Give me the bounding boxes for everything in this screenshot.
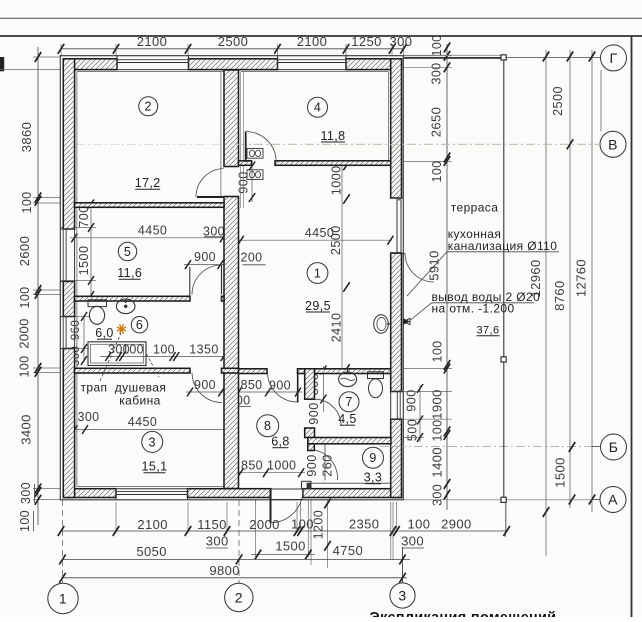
svg-text:6: 6	[136, 318, 143, 332]
svg-text:1500: 1500	[77, 246, 91, 276]
svg-text:2650: 2650	[429, 107, 444, 138]
svg-text:100: 100	[431, 420, 445, 442]
svg-text:850: 850	[240, 378, 262, 392]
svg-text:8760: 8760	[552, 280, 567, 311]
svg-text:100: 100	[430, 34, 444, 56]
svg-text:900: 900	[307, 402, 321, 424]
svg-text:300: 300	[206, 534, 229, 549]
svg-text:А: А	[608, 492, 618, 508]
svg-text:1000: 1000	[267, 459, 296, 473]
svg-text:1250: 1250	[351, 34, 382, 49]
svg-text:300: 300	[203, 225, 225, 239]
svg-text:1000: 1000	[330, 165, 344, 195]
svg-text:3: 3	[149, 435, 156, 449]
svg-text:300: 300	[401, 534, 424, 549]
svg-text:300: 300	[19, 482, 33, 504]
svg-text:3860: 3860	[19, 122, 34, 153]
svg-text:2900: 2900	[441, 517, 472, 532]
svg-text:1400: 1400	[430, 447, 445, 478]
svg-text:100: 100	[18, 355, 32, 377]
svg-text:4450: 4450	[138, 224, 167, 238]
svg-text:4450: 4450	[305, 226, 334, 240]
svg-text:900: 900	[269, 379, 291, 393]
svg-text:1150: 1150	[197, 517, 227, 532]
svg-text:В: В	[608, 136, 618, 152]
svg-text:5050: 5050	[136, 544, 167, 559]
svg-text:Б: Б	[609, 439, 619, 455]
svg-text:100: 100	[291, 517, 314, 532]
svg-text:4450: 4450	[128, 415, 157, 429]
svg-text:душевая: душевая	[115, 381, 167, 395]
svg-text:17,2: 17,2	[135, 176, 161, 190]
svg-text:960: 960	[70, 320, 82, 340]
svg-text:12760: 12760	[574, 259, 589, 297]
svg-text:1500: 1500	[275, 539, 306, 554]
svg-text:1: 1	[314, 266, 321, 280]
svg-text:4750: 4750	[333, 543, 364, 558]
svg-text:6,8: 6,8	[271, 435, 290, 449]
svg-text:300: 300	[390, 34, 413, 49]
svg-text:850: 850	[241, 459, 263, 473]
svg-text:Экспликация помещений: Экспликация помещений	[370, 610, 557, 617]
svg-text:200: 200	[240, 251, 262, 265]
svg-text:2: 2	[235, 590, 243, 606]
svg-text:2410: 2410	[330, 313, 344, 343]
svg-text:100: 100	[431, 340, 445, 362]
svg-text:300: 300	[430, 62, 444, 84]
svg-text:5: 5	[124, 245, 131, 259]
svg-text:2100: 2100	[297, 34, 328, 49]
svg-text:100: 100	[18, 286, 32, 308]
svg-text:3400: 3400	[19, 414, 34, 445]
svg-text:7: 7	[345, 395, 352, 409]
svg-text:37,6: 37,6	[476, 325, 499, 337]
svg-text:100: 100	[153, 343, 175, 357]
svg-text:канализация Ø110: канализация Ø110	[448, 239, 558, 253]
svg-text:2000: 2000	[249, 517, 280, 532]
svg-text:100: 100	[430, 160, 444, 182]
svg-text:2350: 2350	[349, 517, 380, 532]
svg-text:29,5: 29,5	[305, 299, 331, 313]
svg-text:на отм. -1.200: на отм. -1.200	[432, 302, 515, 316]
svg-text:260: 260	[321, 454, 335, 476]
svg-text:Г: Г	[610, 50, 618, 66]
svg-text:4,5: 4,5	[338, 412, 357, 426]
svg-text:3,3: 3,3	[364, 471, 383, 485]
svg-text:100: 100	[20, 191, 34, 213]
svg-text:100: 100	[408, 517, 431, 532]
svg-text:9: 9	[369, 451, 376, 465]
svg-text:3: 3	[398, 588, 406, 604]
svg-text:1350: 1350	[189, 343, 218, 357]
svg-text:1500: 1500	[553, 457, 568, 488]
svg-text:4: 4	[314, 101, 321, 115]
svg-text:2500: 2500	[551, 86, 565, 116]
svg-text:300: 300	[77, 410, 99, 424]
svg-text:100: 100	[18, 510, 32, 532]
svg-text:900: 900	[405, 389, 419, 411]
svg-text:300: 300	[431, 484, 445, 506]
svg-text:900: 900	[194, 250, 216, 264]
svg-text:2600: 2600	[17, 236, 32, 267]
svg-text:700: 700	[77, 205, 91, 227]
svg-text:5910: 5910	[427, 250, 442, 281]
svg-text:11,8: 11,8	[320, 129, 345, 143]
svg-text:трап: трап	[81, 381, 108, 395]
svg-text:6,0: 6,0	[95, 326, 114, 340]
svg-text:9800: 9800	[209, 563, 240, 578]
svg-text:2000: 2000	[17, 318, 32, 349]
svg-text:500: 500	[406, 419, 420, 441]
svg-text:900: 900	[305, 454, 319, 476]
svg-text:2: 2	[145, 100, 152, 114]
svg-text:2100: 2100	[137, 517, 168, 532]
svg-text:терраса: терраса	[451, 201, 499, 215]
svg-text:8: 8	[264, 419, 271, 433]
svg-text:1900: 1900	[430, 389, 445, 420]
svg-text:15,1: 15,1	[142, 460, 168, 474]
svg-text:кабина: кабина	[119, 394, 160, 408]
svg-text:1: 1	[59, 591, 67, 607]
svg-text:11,6: 11,6	[117, 266, 142, 280]
svg-text:2100: 2100	[137, 34, 168, 49]
svg-text:2500: 2500	[218, 34, 249, 49]
